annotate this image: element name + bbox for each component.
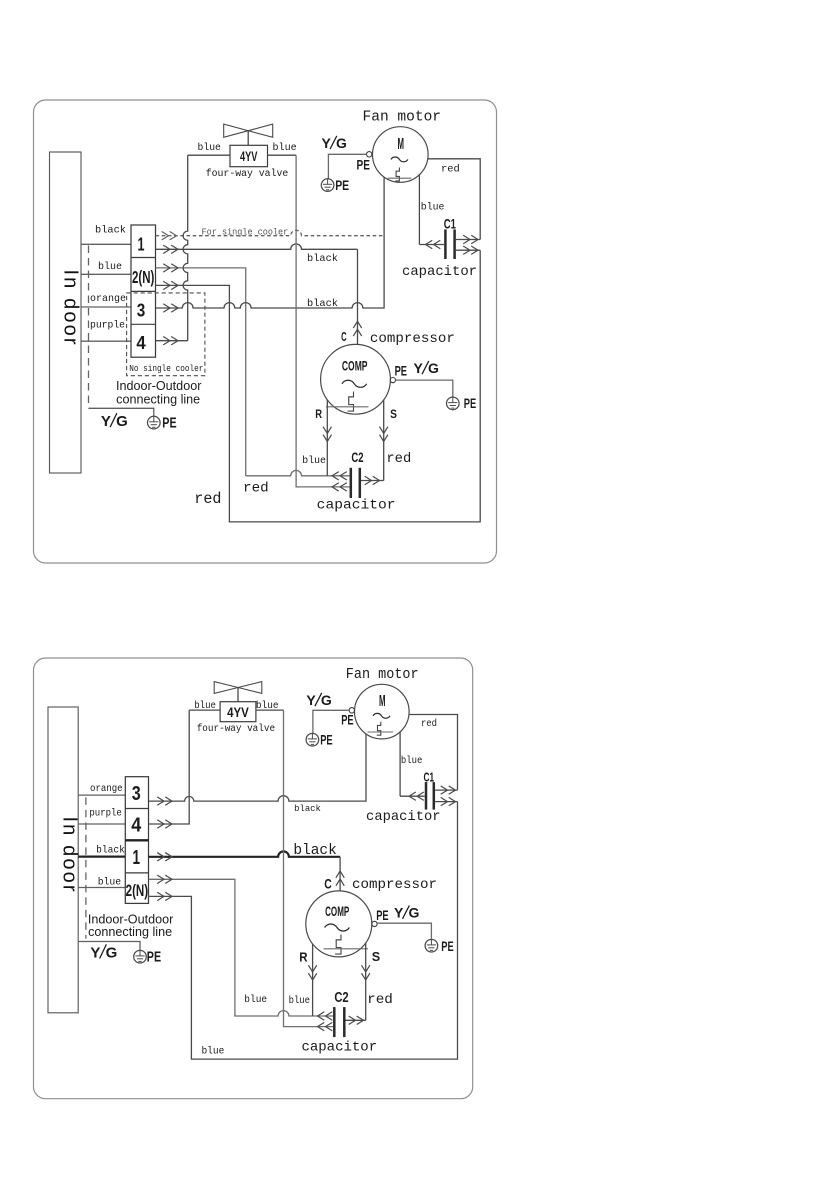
four-way valve symbol (bottom) xyxy=(214,682,238,694)
svg-text:G: G xyxy=(336,135,347,151)
wire black: indoor to terminal 1 xyxy=(81,243,131,245)
fan motor protector xyxy=(395,168,399,182)
svg-text:C2: C2 xyxy=(334,990,348,1006)
wire motor blue lead to C1 (bottom) xyxy=(399,732,401,796)
wire terminal 4 to four-way valve xyxy=(156,340,188,342)
In door box xyxy=(50,152,82,473)
compressor circle (bottom) xyxy=(306,891,372,957)
C1 left connector arrows xyxy=(434,240,441,248)
svg-text:blue: blue xyxy=(256,700,279,712)
svg-text:capacitor: capacitor xyxy=(317,498,396,514)
fan motor tilde xyxy=(391,157,408,162)
svg-text:capacitor: capacitor xyxy=(301,1039,377,1055)
svg-text:PE: PE xyxy=(357,158,370,174)
wire orange: indoor to terminal 3 xyxy=(81,306,131,308)
svg-text:blue: blue xyxy=(98,261,122,273)
compressor S lead (bottom) xyxy=(365,943,367,1020)
svg-text:G: G xyxy=(106,944,118,961)
svg-text:PE: PE xyxy=(147,950,162,966)
capacitor C2 plates (bottom) xyxy=(333,1007,336,1037)
svg-text:2(N): 2(N) xyxy=(132,267,154,287)
svg-text:2(N): 2(N) xyxy=(126,881,149,900)
svg-text:In door: In door xyxy=(59,817,81,892)
four-way valve right branch to capacitor C2 (bottom, gray) xyxy=(284,710,334,1027)
svg-text:4YV: 4YV xyxy=(240,149,258,164)
connector arrows terminal 1 xyxy=(163,245,170,253)
svg-text:blue: blue xyxy=(289,995,310,1007)
svg-text:capacitor: capacitor xyxy=(402,264,477,280)
svg-text:1: 1 xyxy=(133,847,141,869)
svg-text:PE: PE xyxy=(320,732,332,747)
svg-text:COMP: COMP xyxy=(342,359,368,374)
C2 right connector arrows xyxy=(365,476,372,484)
C1 right lead upper (bottom) xyxy=(435,789,457,791)
svg-text:connecting line: connecting line xyxy=(116,392,200,406)
C1 right lower connector arrows (bottom) xyxy=(441,797,448,805)
terminal block (bottom) xyxy=(125,777,148,904)
wire purple: indoor to terminal 4 xyxy=(81,340,131,342)
svg-text:M: M xyxy=(379,693,386,710)
svg-text:blue: blue xyxy=(201,1045,224,1057)
valve stem xyxy=(247,131,249,146)
connector arrows terminal 3 xyxy=(163,304,170,312)
compressor PE terminal dot (bottom) xyxy=(372,921,377,926)
wire terminal 1 to compressor C (bottom, thick black) xyxy=(149,851,341,856)
dashed boundary line (bottom) xyxy=(85,797,87,938)
dashed wire connector arrows xyxy=(162,232,169,240)
svg-text:red: red xyxy=(194,490,221,508)
svg-text:G: G xyxy=(116,413,128,430)
fan motor tilde (bottom) xyxy=(373,713,390,718)
svg-text:red: red xyxy=(243,480,269,496)
connector arrows terminal 1 (bottom) xyxy=(157,853,164,861)
svg-text:G: G xyxy=(409,905,420,921)
svg-text:capacitor: capacitor xyxy=(366,809,441,825)
svg-text:four-way valve: four-way valve xyxy=(206,168,289,180)
wire terminal 4 to four-way valve (bottom) xyxy=(149,710,190,824)
svg-text:PE: PE xyxy=(395,364,407,379)
compressor R lead (bottom) xyxy=(312,944,314,1016)
wire terminal 2(N) to outdoor loop (red) xyxy=(156,250,481,522)
connector arrows into C2 left plate (lower) xyxy=(340,483,347,491)
svg-text:M: M xyxy=(398,136,405,153)
C1 right lead lower (bottom) xyxy=(435,801,457,803)
capacitor C2 plates xyxy=(350,468,353,498)
svg-text:Y: Y xyxy=(101,413,111,430)
svg-text:compressor: compressor xyxy=(370,331,455,347)
wire blue: indoor to terminal 2(N) (bottom) xyxy=(78,887,125,889)
C2 right lead (bottom) xyxy=(346,1019,366,1021)
dashed box: No single cooler xyxy=(127,293,205,376)
fan motor PE terminal dot xyxy=(367,152,372,157)
svg-text:PE: PE xyxy=(464,396,476,411)
svg-text:black: black xyxy=(294,803,321,814)
svg-text:4: 4 xyxy=(136,332,146,353)
dashed boundary line (indoor/outdoor) xyxy=(88,246,90,409)
C1 left lead xyxy=(419,244,444,246)
compressor tilde (bottom) xyxy=(325,924,350,931)
svg-text:In door: In door xyxy=(60,270,82,345)
svg-text:3: 3 xyxy=(132,783,141,805)
four-way valve left branch wire with hops xyxy=(183,155,188,341)
compressor S lead xyxy=(383,400,385,481)
svg-text:PE: PE xyxy=(335,178,349,194)
wire terminal 2(N) to outdoor loop (bottom, blue) xyxy=(149,802,458,1060)
panel border (bottom diagram) xyxy=(34,658,473,1099)
wire terminal 3 to fan motor (black) xyxy=(156,177,385,308)
wire motor blue lead to C1 xyxy=(418,175,420,245)
svg-text:PE: PE xyxy=(441,939,453,954)
svg-text:black: black xyxy=(95,225,126,237)
four-way valve symbol xyxy=(224,124,249,137)
svg-text:purple: purple xyxy=(89,808,121,820)
terminal divider 1-2 (bottom) xyxy=(125,872,148,874)
svg-text:No single cooler: No single cooler xyxy=(129,363,203,374)
wire terminal 1 to compressor C (black) xyxy=(156,244,358,249)
wire motor red to capacitor C1 xyxy=(428,159,480,240)
ground PE (compressor, bottom) xyxy=(425,939,438,952)
four-way valve right branch to capacitor C2 (gray) xyxy=(296,155,350,487)
svg-text:PE: PE xyxy=(376,908,388,923)
wire 4YV left (bottom) xyxy=(189,709,220,711)
svg-text:R: R xyxy=(315,409,322,421)
connector arrows terminal 3 (bottom) xyxy=(157,797,164,805)
svg-text:C: C xyxy=(341,330,347,344)
wire terminal 2(N) to capacitor C2 (gray) xyxy=(156,268,246,476)
S lead connector arrows xyxy=(380,427,388,434)
svg-text:connecting line: connecting line xyxy=(88,925,172,939)
panel border (top diagram) xyxy=(34,100,497,563)
svg-text:orange: orange xyxy=(90,293,126,305)
capacitor C1 plates xyxy=(444,229,447,259)
svg-text:blue: blue xyxy=(98,876,121,888)
terminal divider 1-2 xyxy=(131,257,156,259)
svg-text:blue: blue xyxy=(198,142,221,154)
C2 right connector arrows (bottom) xyxy=(349,1016,356,1024)
svg-text:G: G xyxy=(321,692,332,708)
terminal divider 3-4 xyxy=(131,323,156,325)
svg-text:COMP: COMP xyxy=(325,904,349,919)
svg-text:Fan motor: Fan motor xyxy=(346,667,419,683)
compressor PE terminal dot xyxy=(390,378,395,383)
capacitor C1 plates (bottom) xyxy=(425,782,428,810)
svg-text:1: 1 xyxy=(138,233,145,254)
compressor protector (bottom) xyxy=(335,935,341,955)
ground PE (indoor side, bottom) xyxy=(134,950,147,963)
svg-text:R: R xyxy=(299,950,308,965)
connector arrows into C2 left plate lower (bottom) xyxy=(326,1022,333,1030)
svg-text:PE: PE xyxy=(341,713,353,728)
C2 right lead xyxy=(361,480,384,482)
compressor C drop wire (bottom) xyxy=(339,857,341,891)
wire Y/G to earth xyxy=(89,408,154,416)
wire blue: indoor to terminal 2(N) xyxy=(81,273,131,275)
svg-text:red: red xyxy=(421,718,437,730)
terminal divider 2-3 xyxy=(131,290,156,292)
wire compressor PE to ground (bottom) xyxy=(377,923,431,939)
svg-text:C: C xyxy=(324,876,332,891)
wire terminal 3 to fan motor (bottom) xyxy=(149,734,367,802)
terminal block xyxy=(131,225,156,357)
terminal divider 4-1 (bottom, thick) xyxy=(125,839,148,841)
wire 4YV left xyxy=(188,154,230,156)
connector arrows terminal 4 xyxy=(163,337,170,345)
R lead connector arrows (bottom) xyxy=(308,965,316,972)
connector arrows terminal 4 (bottom) xyxy=(157,820,164,828)
svg-text:S: S xyxy=(390,409,397,421)
connector arrows into C2 left plate upper (bottom) xyxy=(326,1012,333,1020)
svg-text:blue: blue xyxy=(302,455,326,467)
dashed wire: For single cooler option xyxy=(156,230,385,235)
wire 4YV right xyxy=(268,154,297,156)
connector arrows terminal 2(N) lower xyxy=(163,281,170,289)
connector arrows into C2 left plate (upper) xyxy=(340,472,347,480)
svg-text:red: red xyxy=(367,992,393,1008)
wire purple: indoor to terminal 4 (bottom) xyxy=(78,823,125,825)
connector arrows to compressor C xyxy=(353,329,361,336)
svg-text:compressor: compressor xyxy=(352,877,437,893)
wire 4YV right (bottom) xyxy=(256,709,284,711)
R lead connector arrows xyxy=(323,427,331,434)
fan motor PE terminal dot (bottom) xyxy=(349,708,354,713)
connector arrows to compressor C (bottom) xyxy=(336,879,344,886)
C1 right lead lower xyxy=(456,249,480,251)
compressor tilde xyxy=(342,380,367,387)
valve stem (bottom) xyxy=(237,688,239,702)
terminal divider 3-4 (bottom) xyxy=(125,808,148,810)
svg-text:blue: blue xyxy=(244,994,267,1006)
svg-text:4YV: 4YV xyxy=(227,704,249,720)
svg-text:red: red xyxy=(441,163,460,175)
svg-text:red: red xyxy=(386,451,411,467)
ground PE (fan motor) xyxy=(321,179,334,192)
svg-text:PE: PE xyxy=(162,416,177,432)
compressor C drop wire xyxy=(357,249,359,344)
4YV box xyxy=(230,145,268,166)
compressor circle xyxy=(321,344,391,414)
wire motor PE to ground (bottom) xyxy=(313,710,349,733)
svg-text:black: black xyxy=(96,844,125,856)
fan motor circle xyxy=(373,127,429,183)
svg-text:C1: C1 xyxy=(424,769,435,784)
svg-text:C2: C2 xyxy=(351,449,363,465)
svg-text:For single cooler: For single cooler xyxy=(202,226,289,237)
svg-text:black: black xyxy=(307,298,338,310)
ground PE (indoor side) xyxy=(148,416,161,429)
svg-text:Fan motor: Fan motor xyxy=(363,109,442,125)
C1 right lead upper xyxy=(456,239,480,241)
svg-text:four-way valve: four-way valve xyxy=(197,723,275,735)
C1 right lower connector arrows xyxy=(463,246,470,254)
svg-text:G: G xyxy=(428,360,439,376)
svg-text:blue: blue xyxy=(194,700,216,712)
svg-text:Y: Y xyxy=(90,944,100,961)
wire motor PE to ground xyxy=(328,154,366,179)
svg-text:orange: orange xyxy=(90,783,123,795)
svg-text:black: black xyxy=(293,843,336,859)
C1 right upper connector arrows xyxy=(463,235,470,243)
svg-text:purple: purple xyxy=(90,319,125,331)
connector arrows terminal 2(N) upper (bottom) xyxy=(157,875,164,883)
wire terminal 2(N) to capacitor C2 (bottom, gray) xyxy=(149,879,334,1016)
compressor R lead xyxy=(326,400,328,476)
4YV box (bottom) xyxy=(220,702,256,722)
svg-text:black: black xyxy=(307,253,338,265)
C1 left connector arrows (bottom) xyxy=(417,792,424,800)
fan motor circle (bottom) xyxy=(355,684,410,739)
compressor protector xyxy=(348,392,354,412)
wire black: indoor to terminal 1 (bottom) xyxy=(78,855,125,857)
wire motor red to capacitor C1 (bottom) xyxy=(409,715,457,791)
wire Y/G to earth (bottom) xyxy=(78,942,140,951)
C1 right upper connector arrows (bottom) xyxy=(441,786,448,794)
svg-text:4: 4 xyxy=(131,815,142,837)
S lead connector arrows (bottom) xyxy=(362,965,370,972)
wire orange: indoor to terminal 3 (bottom) xyxy=(78,794,125,796)
In door box (bottom) xyxy=(48,707,78,1013)
ground PE (compressor) xyxy=(447,397,460,410)
svg-text:Indoor-Outdoor: Indoor-Outdoor xyxy=(116,379,201,393)
svg-text:blue: blue xyxy=(273,142,297,154)
wire compressor PE to ground xyxy=(396,380,453,397)
svg-text:3: 3 xyxy=(137,299,146,320)
ground PE (fan motor, bottom) xyxy=(306,733,319,746)
C1 left lead (bottom) xyxy=(400,795,425,797)
fan motor protector (bottom) xyxy=(377,722,381,736)
svg-text:S: S xyxy=(372,949,381,964)
connector arrows terminal 2(N) upper xyxy=(163,264,170,272)
svg-text:C1: C1 xyxy=(444,217,456,232)
svg-text:blue: blue xyxy=(421,202,445,214)
svg-text:blue: blue xyxy=(401,755,423,767)
connector arrows terminal 2(N) lower (bottom) xyxy=(157,892,164,900)
